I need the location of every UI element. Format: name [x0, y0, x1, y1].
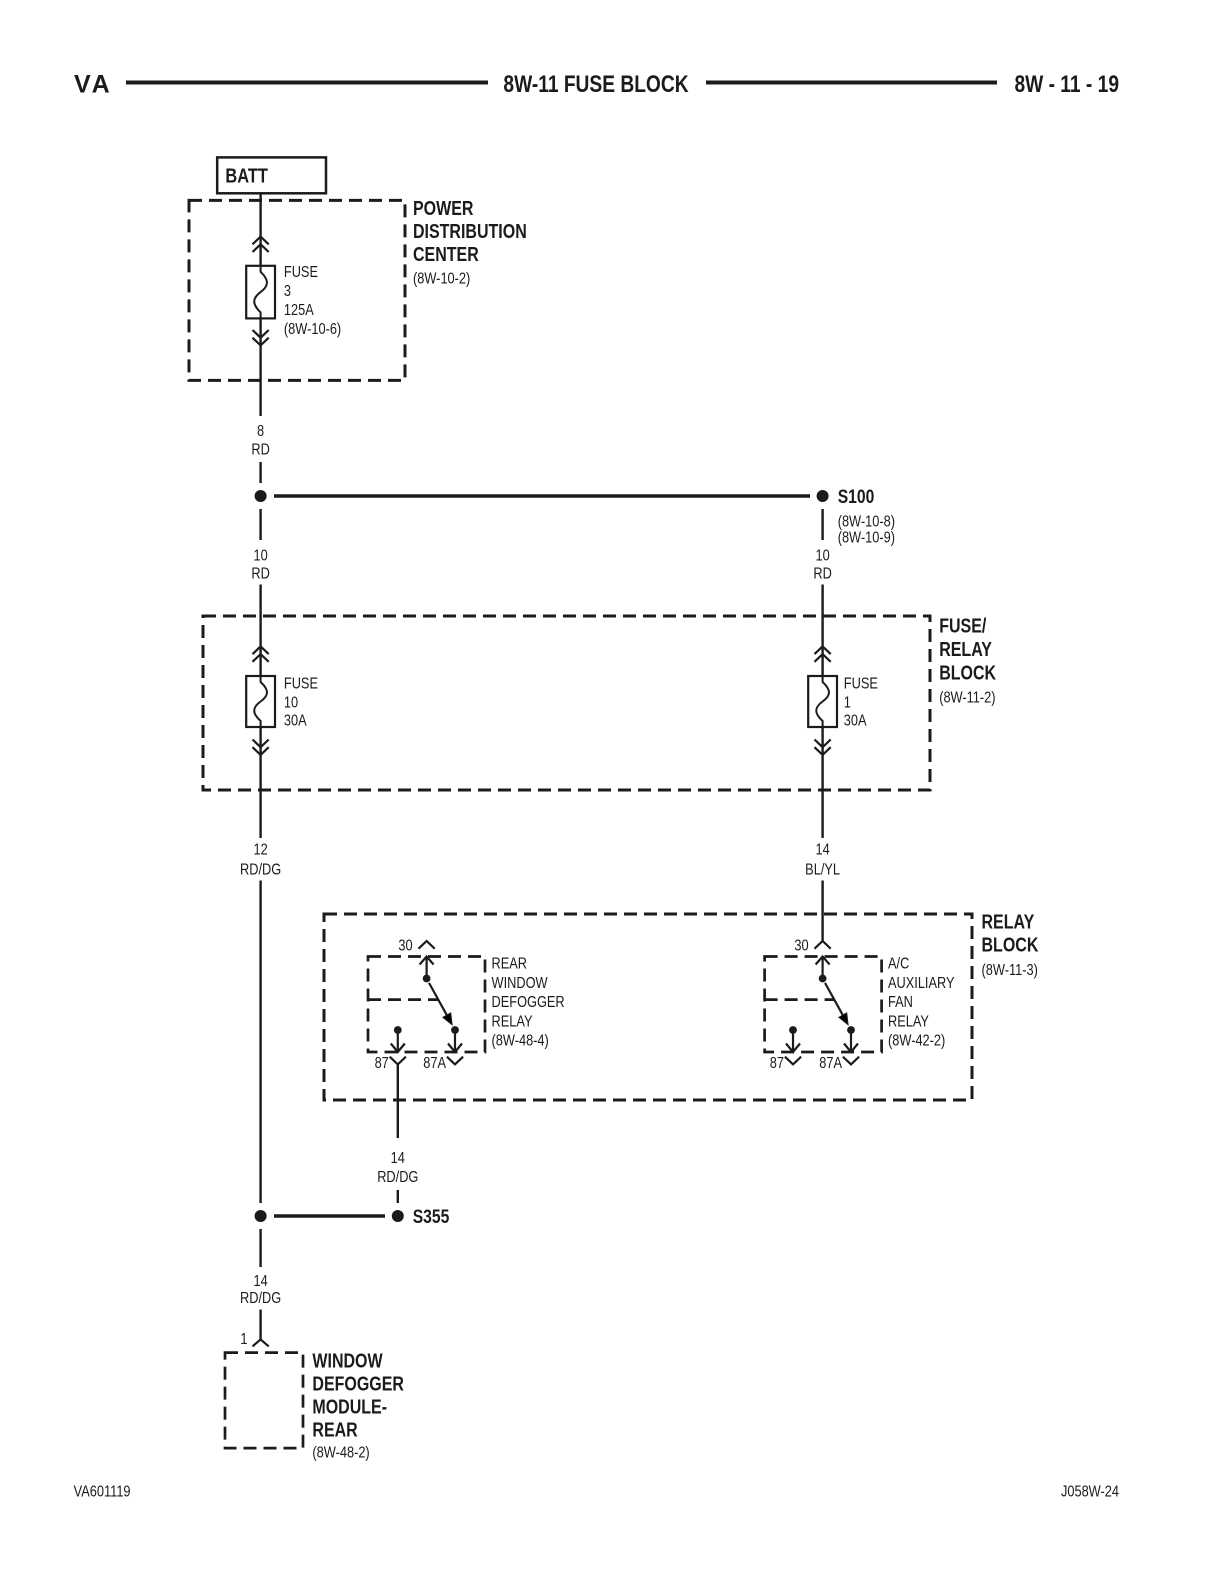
fuse/relay block box (8W-11-2) [203, 615, 996, 790]
wire BATT to fuse 3 [259, 193, 261, 265]
svg-text:REAR: REAR [492, 955, 528, 973]
svg-text:A/C: A/C [888, 955, 909, 973]
wire from fuse 3 out of PDC [259, 318, 261, 416]
wire 8 RD label [251, 423, 269, 460]
svg-text:MODULE-: MODULE- [312, 1396, 387, 1418]
footer sheet numbers [74, 1483, 1119, 1501]
svg-text:VA: VA [74, 71, 112, 99]
svg-text:RD: RD [251, 441, 269, 459]
svg-text:125A: 125A [284, 302, 314, 320]
svg-text:87: 87 [375, 1055, 389, 1073]
svg-text:POWER: POWER [413, 197, 473, 219]
svg-text:8: 8 [257, 423, 264, 441]
svg-text:BLOCK: BLOCK [939, 662, 996, 684]
svg-text:BLOCK: BLOCK [982, 934, 1039, 956]
svg-text:10: 10 [284, 694, 298, 712]
svg-text:WINDOW: WINDOW [312, 1350, 383, 1372]
svg-text:30: 30 [398, 937, 412, 955]
pin 87 [375, 1026, 406, 1072]
svg-text:14: 14 [815, 841, 829, 859]
svg-text:RELAY: RELAY [888, 1013, 929, 1031]
svg-text:1: 1 [240, 1331, 247, 1349]
svg-text:DEFOGGER: DEFOGGER [312, 1373, 404, 1395]
svg-text:(8W-10-9): (8W-10-9) [838, 529, 895, 547]
pin 87 [770, 1026, 801, 1072]
svg-text:VA601119: VA601119 [74, 1483, 131, 1501]
wire 14 BL/YL [805, 727, 840, 941]
connector pair below fuse 1 [815, 740, 831, 755]
svg-text:30A: 30A [284, 712, 307, 730]
svg-text:(8W-42-2): (8W-42-2) [888, 1032, 945, 1050]
svg-text:3: 3 [284, 283, 291, 301]
svg-text:(8W-48-2): (8W-48-2) [312, 1444, 369, 1462]
splice S355 [255, 1205, 450, 1227]
svg-text:(8W-48-4): (8W-48-4) [492, 1032, 549, 1050]
wire 10 RD right [813, 509, 831, 676]
svg-text:WINDOW: WINDOW [492, 975, 548, 993]
svg-text:FUSE: FUSE [284, 675, 318, 693]
svg-text:(8W-10-8): (8W-10-8) [838, 513, 895, 531]
relay outline box [368, 957, 485, 1053]
svg-text:87: 87 [770, 1055, 784, 1073]
svg-text:RELAY: RELAY [939, 639, 992, 661]
svg-text:RD/DG: RD/DG [240, 861, 281, 879]
relay K2 a/c auxiliary fan relay (8W-42-2) [765, 937, 955, 1072]
relay name label [888, 955, 955, 1049]
svg-text:87A: 87A [819, 1055, 842, 1073]
svg-text:30A: 30A [844, 712, 867, 730]
fuse F1 30A [808, 675, 878, 730]
fuse F10 30A [246, 675, 318, 730]
svg-text:REAR: REAR [312, 1419, 357, 1441]
svg-text:BL/YL: BL/YL [805, 861, 840, 879]
contact arm to 87A [825, 983, 848, 1025]
svg-text:8W-11 FUSE BLOCK: 8W-11 FUSE BLOCK [503, 70, 688, 98]
svg-text:14: 14 [253, 1273, 267, 1291]
wire 14 RD/DG from relay pin 87 [377, 1064, 418, 1203]
svg-text:AUXILIARY: AUXILIARY [888, 975, 955, 993]
svg-text:RD/DG: RD/DG [377, 1169, 418, 1187]
relay name label [492, 955, 565, 1049]
coil compartment divider [765, 998, 835, 1001]
svg-text:10: 10 [815, 547, 829, 565]
svg-text:10: 10 [253, 547, 267, 565]
svg-text:(8W-11-2): (8W-11-2) [939, 689, 995, 707]
svg-text:RD: RD [251, 565, 269, 583]
connector pair above fuse 1 [815, 646, 831, 661]
relay block box (8W-11-3) [324, 911, 1038, 1100]
connector pair below fuse 10 [253, 740, 269, 755]
svg-text:J058W-24: J058W-24 [1061, 1483, 1119, 1501]
svg-text:S355: S355 [413, 1205, 450, 1227]
svg-text:BATT: BATT [225, 164, 268, 187]
connector pair above fuse 3 [253, 237, 269, 252]
junction dot left branch [255, 490, 267, 502]
window defogger module-rear box (8W-48-2) [225, 1350, 404, 1462]
svg-text:DEFOGGER: DEFOGGER [492, 994, 565, 1012]
svg-text:DISTRIBUTION: DISTRIBUTION [413, 220, 527, 242]
svg-text:CENTER: CENTER [413, 243, 479, 265]
svg-text:87A: 87A [423, 1055, 446, 1073]
svg-text:RELAY: RELAY [492, 1013, 533, 1031]
svg-text:RELAY: RELAY [982, 911, 1035, 933]
svg-text:FUSE: FUSE [844, 675, 878, 693]
svg-text:1: 1 [844, 694, 851, 712]
svg-text:FAN: FAN [888, 994, 913, 1012]
svg-text:(8W-10-2): (8W-10-2) [413, 270, 470, 288]
pin 87A [819, 1026, 859, 1072]
svg-text:14: 14 [391, 1150, 405, 1168]
connector pair above fuse 10 [253, 646, 269, 661]
pin 30 [398, 937, 434, 982]
wire segment to splice branch [259, 462, 261, 483]
relay K1 rear window defogger relay (8W-48-4) [368, 937, 565, 1072]
wire 12 RD/DG [240, 727, 281, 1203]
wire 10 RD left [251, 509, 269, 676]
svg-text:FUSE/: FUSE/ [939, 615, 986, 637]
fuse F3 125A (8W-10-6) [246, 264, 341, 339]
svg-text:S100: S100 [838, 485, 875, 507]
coil compartment divider [368, 998, 438, 1001]
power distribution center box (8W-10-2) [189, 197, 527, 380]
connector pair below fuse 3 [253, 330, 269, 345]
svg-text:RD: RD [813, 565, 831, 583]
page header [74, 70, 1119, 99]
svg-text:RD/DG: RD/DG [240, 1290, 281, 1308]
svg-text:8W - 11 - 19: 8W - 11 - 19 [1014, 70, 1119, 98]
svg-text:30: 30 [794, 937, 808, 955]
splice S100 (8W-10-8)(8W-10-9) [817, 485, 895, 547]
pin 1 connector at module [240, 1331, 268, 1349]
svg-text:12: 12 [253, 841, 267, 859]
battery feed terminal BATT [217, 157, 326, 193]
svg-text:(8W-10-6): (8W-10-6) [284, 321, 341, 339]
contact arm to 87A [429, 983, 452, 1025]
wire 14 RD/DG to defogger module [240, 1229, 281, 1339]
svg-text:(8W-11-3): (8W-11-3) [982, 962, 1038, 980]
wire splice bus to S100 [274, 494, 810, 497]
svg-text:FUSE: FUSE [284, 264, 318, 282]
pin 87A [423, 1026, 463, 1072]
pin 30 [794, 937, 830, 982]
relay outline box [765, 957, 882, 1053]
